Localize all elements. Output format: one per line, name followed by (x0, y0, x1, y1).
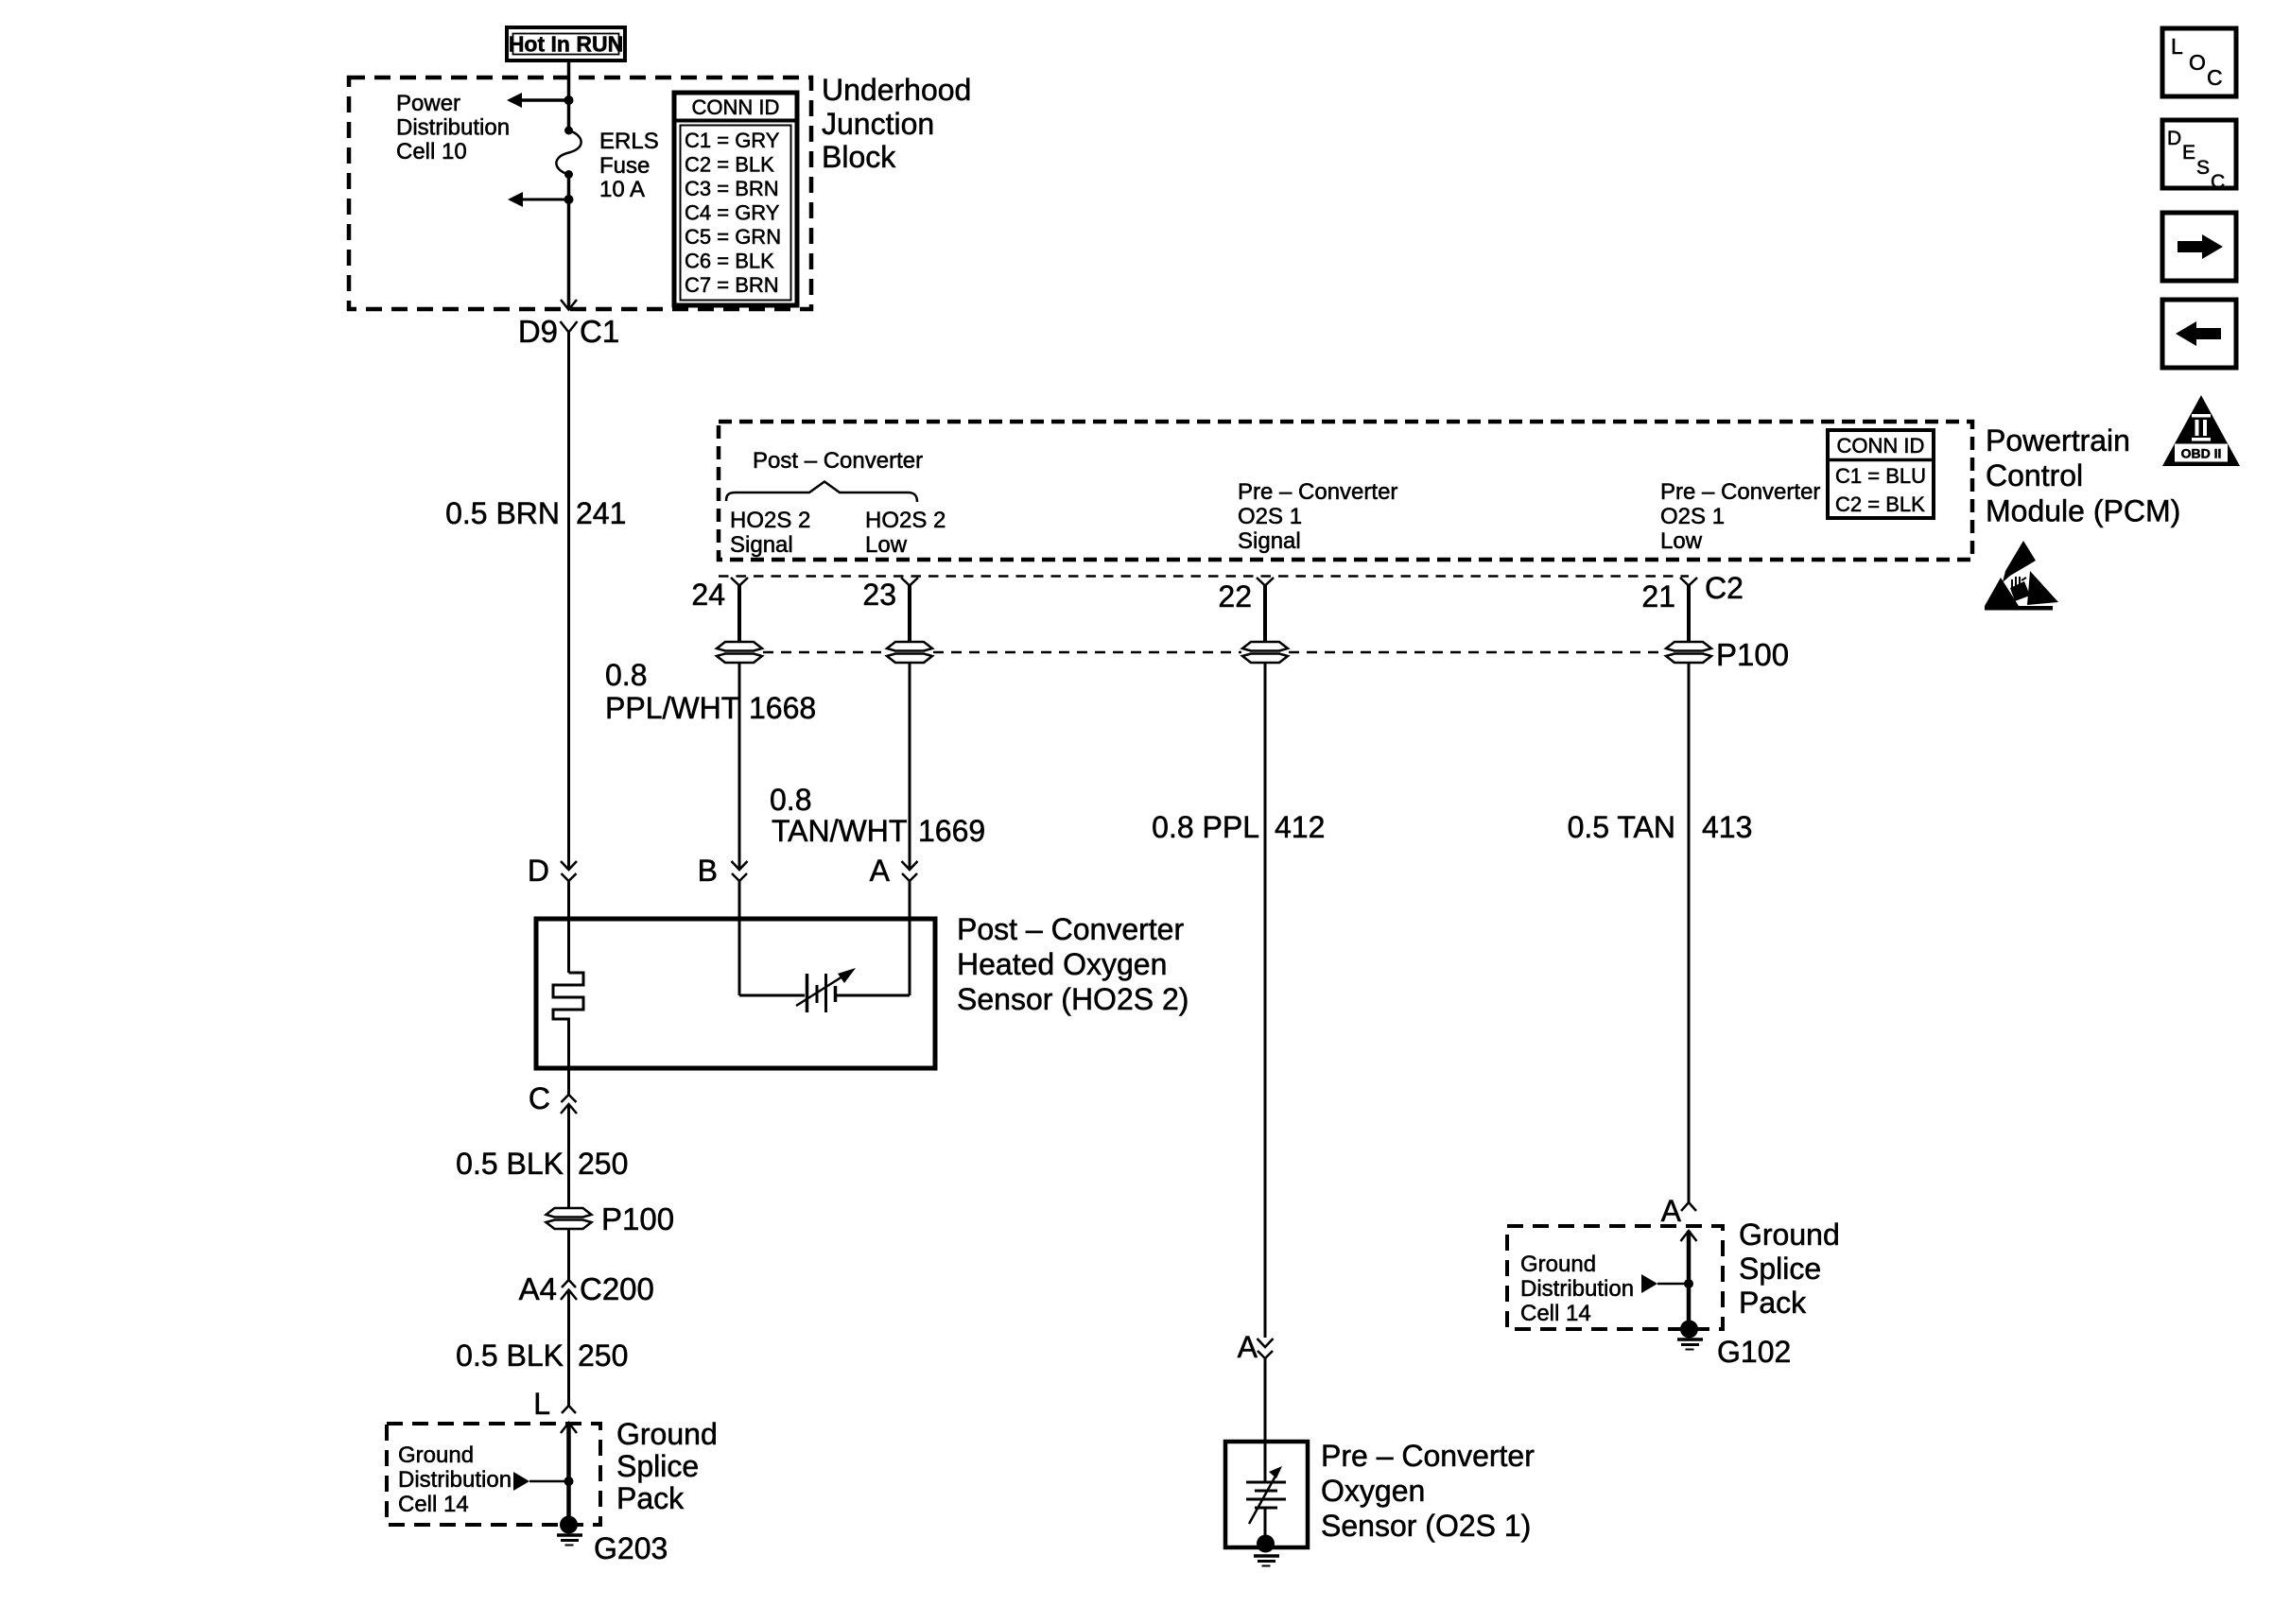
pin 21 fork (C2) (1641, 571, 1744, 641)
svg-text:Cell 14: Cell 14 (1520, 1301, 1591, 1326)
svg-text:C1 = BLU: C1 = BLU (1835, 464, 1926, 488)
svg-text:HO2S 2: HO2S 2 (730, 508, 810, 533)
svg-text:A: A (870, 854, 891, 888)
wire pointer to splice (G203) (529, 1480, 569, 1483)
svg-text:A4: A4 (519, 1271, 557, 1306)
pin 23 fork (862, 578, 918, 641)
label "0.5 BRN 241" (445, 496, 626, 530)
grommet dashed pass-through line (763, 651, 1665, 654)
label "0.5 BLK 250" (lower) (456, 1339, 628, 1373)
svg-text:21: 21 (1641, 579, 1675, 613)
icon LOC button (2162, 28, 2236, 96)
grommet P100 (wire 21) (1666, 642, 1711, 663)
svg-text:Heated Oxygen: Heated Oxygen (957, 947, 1167, 981)
svg-text:Module (PCM): Module (PCM) (1986, 494, 2180, 528)
Underhood Junction Block dashed box (349, 78, 811, 309)
svg-text:C: C (529, 1081, 550, 1115)
label "HO2S 2 Low" (pin 23) (865, 508, 946, 558)
svg-text:Pack: Pack (616, 1481, 685, 1515)
svg-text:P100: P100 (601, 1201, 674, 1236)
svg-text:C2 = BLK: C2 = BLK (685, 153, 774, 177)
label "Pre - Converter O2S 1 Low" (pin 21) (1660, 479, 1820, 554)
splice junction dot (G203) (564, 1477, 574, 1486)
svg-text:ERLS: ERLS (599, 129, 659, 154)
wire 0.5 BLK 250 (upper) (567, 1104, 570, 1208)
svg-text:Sensor (O2S 1): Sensor (O2S 1) (1321, 1509, 1531, 1543)
pin 24 fork (691, 578, 748, 641)
pointer triangle (G203) (513, 1472, 529, 1491)
svg-text:E: E (2182, 142, 2195, 164)
svg-text:C: C (2211, 171, 2225, 193)
svg-text:D9: D9 (518, 314, 558, 349)
svg-text:C: C (2207, 65, 2223, 90)
heater element (crenellated) (553, 973, 583, 1068)
fuse ERLS 10A (S-curve element) (556, 127, 581, 180)
svg-text:P100: P100 (1716, 637, 1789, 672)
svg-text:0.5 TAN: 0.5 TAN (1568, 810, 1675, 844)
svg-text:0.8 PPL: 0.8 PPL (1152, 810, 1259, 844)
svg-text:C1: C1 (580, 314, 619, 349)
svg-text:HO2S 2: HO2S 2 (865, 508, 946, 533)
svg-text:0.8: 0.8 (770, 783, 811, 817)
svg-text:C1 = GRY: C1 = GRY (685, 129, 780, 152)
label "0.5 BLK 250" (upper) (456, 1147, 628, 1181)
wire 0.8 TAN/WHT 1669 (909, 663, 911, 868)
sensing element (O2S1) (1246, 1466, 1286, 1544)
svg-text:Cell 14: Cell 14 (398, 1492, 469, 1517)
svg-text:10 A: 10 A (599, 177, 645, 202)
wire 0.5 TAN 413 (1688, 663, 1691, 1202)
connector C (chevron + up arrow) (529, 1068, 577, 1115)
CONN ID table (junction block) (674, 93, 797, 305)
svg-text:O2S 1: O2S 1 (1238, 504, 1302, 529)
branch arrow left (top) (507, 93, 569, 108)
svg-text:C7 = BRN: C7 = BRN (685, 273, 779, 297)
svg-text:Junction: Junction (822, 107, 934, 141)
label "0.8 TAN/WHT 1669" (770, 783, 985, 848)
svg-text:23: 23 (862, 578, 896, 612)
svg-text:Post – Converter: Post – Converter (753, 448, 923, 474)
svg-text:0.5 BLK: 0.5 BLK (456, 1147, 564, 1181)
down arrowhead at junction block exit (561, 300, 577, 310)
svg-text:L: L (533, 1387, 550, 1421)
svg-text:L: L (2171, 34, 2183, 59)
label "0.8 PPL 412" (1152, 810, 1325, 844)
svg-text:Signal: Signal (1238, 528, 1301, 554)
pin 22 fork (1218, 578, 1274, 641)
Pre-Converter O2S1 sensor box (1225, 1442, 1308, 1547)
svg-text:C4 = GRY: C4 = GRY (685, 201, 780, 225)
brace under Post-Converter (726, 482, 917, 503)
svg-text:D: D (2167, 128, 2181, 149)
wire fuse to lower junction (567, 175, 571, 309)
grommet P100 (wire 23) (887, 642, 932, 663)
label "Pre - Converter O2S 1 Signal" (pin 22) (1238, 479, 1397, 554)
ground splice pack G102 dashed box (1507, 1226, 1723, 1329)
svg-text:0.5 BRN: 0.5 BRN (445, 496, 560, 530)
svg-text:412: 412 (1275, 810, 1325, 844)
icon ESD susceptibility symbol (1985, 541, 2058, 611)
svg-text:CONN ID: CONN ID (692, 95, 780, 119)
branch arrow left (lower) (508, 192, 569, 207)
connector face dashed line (C2) (719, 575, 1689, 578)
svg-text:413: 413 (1702, 810, 1752, 844)
svg-text:1669: 1669 (918, 814, 985, 848)
svg-text:C2 = BLK: C2 = BLK (1835, 492, 1925, 516)
label "Ground Splice Pack" (G102) (1739, 1218, 1840, 1320)
svg-text:TAN/WHT: TAN/WHT (772, 814, 907, 848)
label "HO2S 2 Signal" (pin 24) (730, 508, 810, 558)
svg-text:1668: 1668 (749, 691, 816, 725)
ground G102 symbol (1677, 1321, 1703, 1350)
svg-text:S: S (2196, 157, 2210, 179)
svg-text:Distribution: Distribution (396, 115, 510, 141)
wire 0.8 PPL/WHT 1668 (738, 663, 741, 868)
wire 0.5 BRN 241 (567, 333, 570, 869)
svg-text:0.5 BLK: 0.5 BLK (456, 1339, 564, 1373)
label "Underhood Junction Block" (822, 73, 971, 174)
svg-text:24: 24 (691, 578, 725, 612)
svg-text:C3 = BRN: C3 = BRN (685, 177, 779, 200)
icon prev-page arrow button (2162, 300, 2236, 368)
up arrowhead inside G102 box (1681, 1231, 1697, 1327)
svg-text:Pre – Converter: Pre – Converter (1321, 1439, 1535, 1473)
junction node dot (lower) (564, 195, 574, 204)
svg-text:C200: C200 (580, 1271, 654, 1306)
svg-text:250: 250 (578, 1147, 628, 1181)
connector D (arrow + chevron) (528, 854, 748, 888)
grommet P100 (wire 22) (1242, 642, 1288, 663)
svg-text:Pack: Pack (1739, 1286, 1807, 1320)
label "Power Distribution Cell 10" (396, 91, 510, 164)
svg-text:O: O (2189, 50, 2206, 75)
label "0.5 TAN 413" (1568, 810, 1753, 844)
sensing element (variable cell with arrow) (739, 968, 910, 1012)
svg-text:Powertrain: Powertrain (1986, 423, 2130, 458)
svg-text:Underhood: Underhood (822, 73, 971, 107)
svg-text:OBD II: OBD II (2181, 446, 2222, 461)
svg-text:Ground: Ground (616, 1417, 718, 1451)
svg-text:Ground: Ground (398, 1443, 474, 1468)
CONN ID table (PCM) (1828, 430, 1934, 518)
wire B inside box (738, 881, 741, 995)
wire 0.8 PPL 412 (1264, 663, 1267, 1338)
svg-text:PPL/WHT: PPL/WHT (605, 691, 739, 725)
svg-text:Power: Power (396, 91, 460, 116)
svg-text:A: A (1661, 1194, 1682, 1228)
svg-text:B: B (698, 854, 718, 888)
svg-text:Block: Block (822, 140, 896, 174)
label "Post-Converter Heated Oxygen Sensor (HO2S 2)" (957, 912, 1189, 1016)
svg-text:Cell 10: Cell 10 (396, 139, 467, 164)
svg-text:Ground: Ground (1520, 1252, 1596, 1277)
ground G203 symbol (557, 1516, 582, 1546)
wire pointer to splice (G102) (1657, 1283, 1689, 1286)
junction node dot (top) (564, 95, 574, 105)
connector L (chevron) (533, 1387, 576, 1421)
svg-text:C2: C2 (1705, 571, 1744, 605)
svg-text:G203: G203 (594, 1531, 668, 1565)
icon OBD II triangle (2162, 395, 2240, 466)
wire 0.5 BLK 250 (lower) (567, 1290, 570, 1407)
svg-text:Low: Low (1660, 528, 1703, 554)
svg-text:Pre – Converter: Pre – Converter (1660, 479, 1820, 505)
wire P100 to C200 (567, 1229, 570, 1280)
svg-text:Distribution: Distribution (398, 1467, 512, 1493)
svg-text:Hot In RUN: Hot In RUN (509, 32, 623, 57)
grommet P100 (wire 24) (717, 642, 762, 663)
svg-text:Low: Low (865, 532, 908, 558)
connector A (arrow + chevron, HO2S2) (870, 854, 918, 888)
fuse label box "Hot In RUN" (507, 27, 625, 60)
svg-text:Ground: Ground (1739, 1218, 1840, 1252)
connector B (arrow + chevron) (698, 854, 748, 888)
svg-text:Control: Control (1986, 458, 2083, 492)
ground (O2S1) (1254, 1535, 1279, 1566)
wire from Hot In RUN down into junction block (567, 60, 571, 130)
svg-text:241: 241 (576, 496, 626, 530)
svg-text:Oxygen: Oxygen (1321, 1474, 1425, 1508)
label "Ground Distribution Cell 14" (G203) (398, 1443, 512, 1517)
connector D9 / C1 fork (518, 314, 619, 349)
wire D into sensor box (567, 881, 570, 973)
svg-text:C6 = BLK: C6 = BLK (685, 250, 774, 273)
icon next-page arrow button (2162, 213, 2236, 281)
svg-text:0.8: 0.8 (605, 658, 647, 692)
splice junction dot (G102) (1684, 1279, 1693, 1288)
pointer triangle (G102) (1641, 1274, 1657, 1293)
wire A into O2S1 box (1264, 1358, 1267, 1482)
svg-text:C5 = GRN: C5 = GRN (685, 225, 781, 249)
wire A inside box (909, 881, 911, 995)
svg-text:Post – Converter: Post – Converter (957, 912, 1184, 946)
svg-text:Distribution: Distribution (1520, 1276, 1634, 1302)
up arrowhead inside G203 box (561, 1423, 577, 1520)
svg-text:Splice: Splice (1739, 1252, 1821, 1286)
connector A4 / C200 (chevron + up arrow) (519, 1271, 654, 1306)
svg-text:22: 22 (1218, 579, 1252, 613)
connector A (chevron, G102) (1661, 1194, 1696, 1228)
P100 grommet (left wire) (547, 1208, 592, 1229)
svg-text:Fuse: Fuse (599, 153, 650, 179)
Post-Converter HO2S 2 sensor box (536, 919, 935, 1068)
label "Ground Distribution Cell 14" (G102) (1520, 1252, 1634, 1326)
Powertrain Control Module dashed box (719, 422, 1972, 560)
svg-text:Sensor (HO2S 2): Sensor (HO2S 2) (957, 982, 1189, 1016)
svg-text:250: 250 (578, 1339, 628, 1373)
connector A (arrow + chevron, O2S1) (1238, 1330, 1274, 1364)
icon DESC button (2162, 120, 2236, 193)
label "ERLS Fuse 10 A" (599, 129, 659, 202)
svg-text:G102: G102 (1717, 1335, 1791, 1369)
label "Powertrain Control Module (PCM)" (1986, 423, 2180, 528)
svg-text:Splice: Splice (616, 1449, 699, 1483)
svg-text:Pre – Converter: Pre – Converter (1238, 479, 1397, 505)
svg-text:D: D (528, 854, 549, 888)
label "0.8 PPL/WHT 1668" (605, 658, 816, 725)
ground splice pack G203 dashed box (387, 1424, 600, 1525)
label "Ground Splice Pack" (G203) (616, 1417, 718, 1515)
label "Pre-Converter Oxygen Sensor (O2S 1)" (1321, 1439, 1535, 1543)
svg-text:A: A (1238, 1330, 1258, 1364)
svg-text:O2S 1: O2S 1 (1660, 504, 1725, 529)
svg-text:CONN ID: CONN ID (1837, 434, 1925, 458)
svg-text:Signal: Signal (730, 532, 793, 558)
